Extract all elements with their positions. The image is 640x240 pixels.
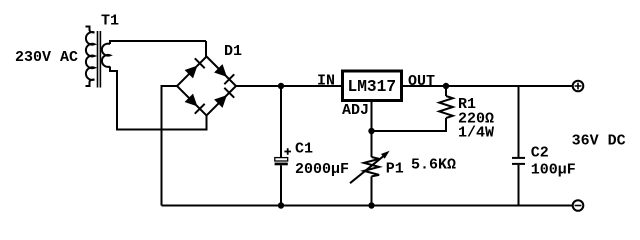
- svg-text:D1: D1: [224, 43, 242, 60]
- svg-text:T1: T1: [101, 13, 119, 30]
- svg-text:OUT: OUT: [408, 73, 435, 90]
- svg-text:IN: IN: [317, 73, 335, 90]
- svg-text:2000µF: 2000µF: [295, 161, 349, 178]
- svg-text:LM317: LM317: [348, 78, 397, 96]
- svg-text:C1: C1: [295, 141, 313, 158]
- svg-text:ADJ: ADJ: [342, 102, 369, 119]
- svg-text:230V AC: 230V AC: [15, 49, 78, 66]
- svg-text:C2: C2: [531, 145, 549, 162]
- svg-text:1/4W: 1/4W: [458, 125, 494, 142]
- svg-text:P1: P1: [386, 160, 404, 177]
- svg-text:5.6KΩ: 5.6KΩ: [411, 157, 456, 174]
- svg-text:36V DC: 36V DC: [572, 132, 626, 149]
- svg-text:100µF: 100µF: [531, 162, 576, 179]
